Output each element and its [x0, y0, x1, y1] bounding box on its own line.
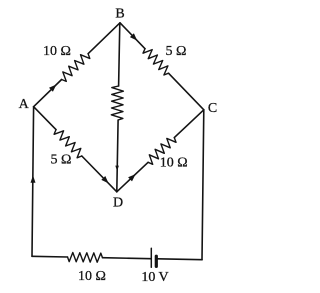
- wire B to C (upper segment): [120, 23, 145, 49]
- resistor R_AD 5 ohm zigzag: [54, 130, 82, 158]
- svg-text:10 Ω: 10 Ω: [78, 269, 106, 284]
- wire right vertical C down: [202, 110, 204, 260]
- svg-text:5 Ω: 5 Ω: [51, 153, 72, 168]
- battery long plate: [150, 248, 152, 267]
- current arrow on D-C wire: [128, 174, 136, 181]
- current arrow on B-C wire: [130, 33, 137, 40]
- wire B to D middle (upper segment): [119, 23, 120, 86]
- wire A to B (lower segment): [34, 80, 62, 107]
- resistor R_bottom 10 ohm zigzag: [68, 253, 103, 263]
- wire D to C (upper segment): [174, 110, 204, 138]
- wire A to B (upper segment): [88, 23, 120, 54]
- wire left vertical A down: [32, 107, 34, 257]
- battery short plate: [155, 256, 158, 266]
- svg-text:C: C: [208, 101, 217, 116]
- svg-text:D: D: [113, 196, 123, 211]
- svg-text:A: A: [19, 97, 30, 112]
- current arrow on left vertical wire: [31, 175, 36, 183]
- wire A to D (upper segment): [34, 107, 56, 130]
- resistor R_BC 5 ohm zigzag: [143, 49, 169, 75]
- resistor R_AB 10 ohm zigzag: [62, 54, 90, 82]
- wire battery to bottom right corner: [158, 258, 202, 261]
- current arrow on middle wire: [115, 166, 119, 172]
- current arrow on A-B wire: [49, 85, 56, 92]
- current arrow on A-D wire: [101, 176, 108, 183]
- wire resistor to battery: [103, 258, 151, 259]
- svg-text:5 Ω: 5 Ω: [166, 44, 187, 59]
- wire D to C (lower segment): [117, 162, 148, 192]
- wire A to D (lower segment): [82, 156, 117, 192]
- svg-text:10 Ω: 10 Ω: [43, 44, 71, 59]
- resistor R_DC 10 ohm zigzag: [148, 138, 176, 165]
- svg-text:10 V: 10 V: [141, 270, 168, 285]
- wire B to D middle (lower segment): [117, 120, 118, 192]
- wire bottom left to resistor: [32, 255, 68, 258]
- svg-text:10 Ω: 10 Ω: [160, 156, 188, 171]
- svg-text:B: B: [115, 6, 124, 21]
- wire B to C (lower segment): [169, 73, 204, 110]
- resistor R_BD middle zigzag: [111, 86, 123, 120]
